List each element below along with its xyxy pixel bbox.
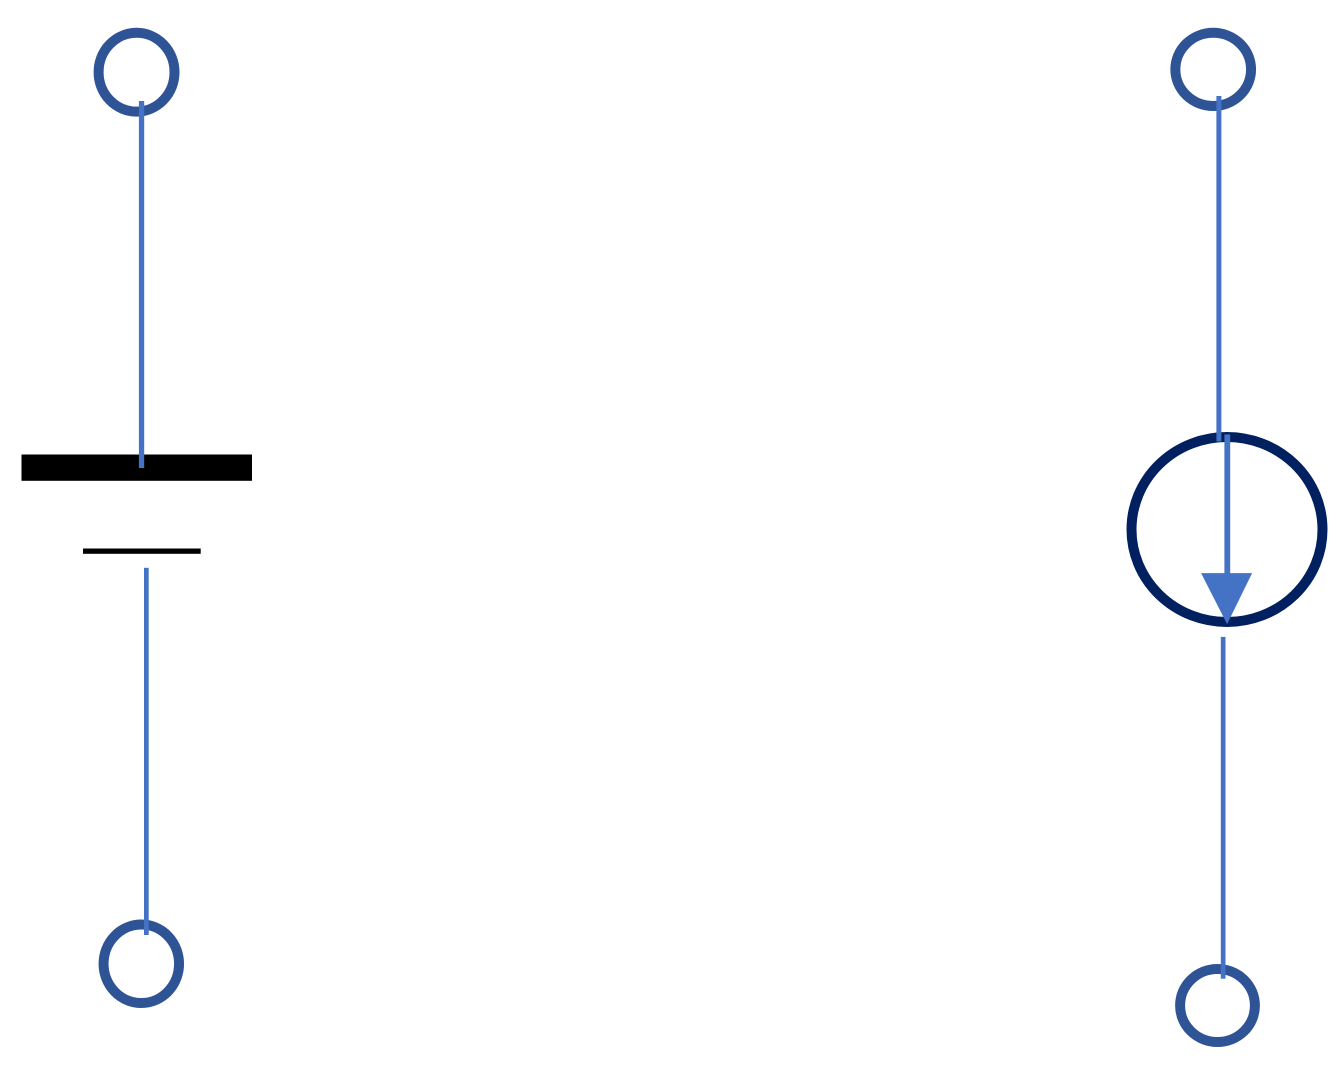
wire (current source top terminal to circle) [1216, 96, 1221, 442]
battery positive plate (long thick bar) [22, 455, 253, 481]
current direction arrow head [1201, 573, 1252, 624]
terminal node (current source top) [1175, 33, 1251, 106]
wire (negative plate to battery bottom terminal) [144, 568, 149, 935]
current source [1132, 33, 1323, 1042]
battery negative plate (short thin bar) [83, 549, 201, 554]
current direction arrow shaft [1224, 435, 1230, 575]
wire (current source circle to bottom terminal) [1221, 637, 1226, 979]
terminal node (battery top) [99, 33, 175, 112]
terminal node (battery bottom) [104, 925, 180, 1004]
current source circle [1132, 437, 1323, 622]
battery cell (DC voltage source) [22, 33, 253, 1003]
wire (battery top terminal to positive plate) [139, 101, 144, 468]
terminal node (current source bottom) [1180, 969, 1255, 1042]
